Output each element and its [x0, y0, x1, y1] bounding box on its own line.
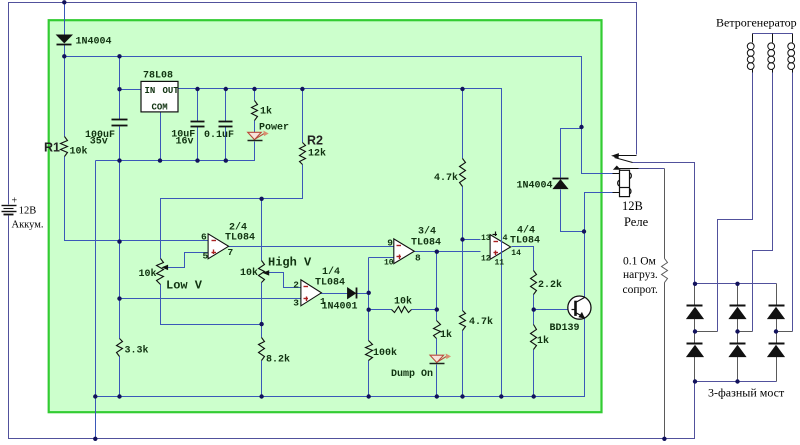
svg-text:+: +: [12, 195, 18, 206]
svg-text:16v: 16v: [176, 137, 194, 148]
svg-text:5: 5: [203, 251, 209, 262]
svg-text:COM: COM: [152, 103, 168, 113]
svg-text:TL084: TL084: [315, 278, 345, 289]
svg-text:14: 14: [511, 249, 521, 258]
svg-text:4.7k: 4.7k: [434, 172, 458, 184]
svg-text:12В: 12В: [622, 199, 643, 213]
svg-text:2.2k: 2.2k: [538, 279, 562, 291]
svg-text:1N4004: 1N4004: [517, 181, 553, 192]
svg-text:35v: 35v: [90, 137, 108, 148]
svg-text:6: 6: [201, 232, 207, 243]
svg-text:High V: High V: [268, 256, 312, 270]
svg-text:78L08: 78L08: [143, 71, 173, 82]
svg-text:10k: 10k: [394, 296, 412, 308]
svg-text:4: 4: [503, 233, 508, 243]
svg-text:100k: 100k: [373, 347, 397, 359]
svg-text:10k: 10k: [139, 268, 157, 280]
svg-text:11: 11: [495, 259, 505, 268]
svg-text:Power: Power: [259, 123, 289, 134]
svg-text:3-фазный мост: 3-фазный мост: [708, 386, 785, 400]
svg-text:8.2k: 8.2k: [266, 354, 290, 366]
svg-text:Ветрогенератор: Ветрогенератор: [716, 16, 797, 30]
svg-text:3: 3: [293, 298, 299, 309]
svg-text:3/4: 3/4: [418, 226, 436, 238]
svg-text:Реле: Реле: [624, 215, 649, 229]
svg-text:12: 12: [481, 255, 491, 264]
svg-text:0.1 Ом: 0.1 Ом: [623, 256, 657, 268]
svg-text:1k: 1k: [260, 105, 272, 117]
svg-text:Low V: Low V: [166, 279, 203, 293]
svg-text:7: 7: [228, 247, 234, 258]
svg-text:OUT: OUT: [163, 86, 180, 96]
svg-text:12k: 12k: [308, 148, 326, 160]
svg-text:12В: 12В: [19, 206, 37, 217]
svg-text:R1: R1: [44, 141, 60, 155]
svg-text:1k: 1k: [440, 329, 452, 341]
svg-text:Аккум.: Аккум.: [12, 219, 44, 230]
svg-text:9: 9: [387, 237, 393, 248]
svg-text:10k: 10k: [70, 146, 88, 158]
svg-text:TL084: TL084: [225, 233, 255, 244]
svg-text:4.7k: 4.7k: [469, 316, 493, 328]
svg-text:2: 2: [293, 280, 299, 291]
svg-text:IN: IN: [145, 86, 156, 96]
svg-text:1N4001: 1N4001: [322, 302, 358, 313]
svg-text:13: 13: [481, 234, 491, 243]
svg-text:R2: R2: [307, 134, 323, 148]
svg-text:TL084: TL084: [411, 238, 441, 249]
svg-text:BD139: BD139: [550, 323, 580, 334]
svg-text:10: 10: [384, 259, 394, 268]
svg-text:сопрот.: сопрот.: [623, 284, 659, 296]
svg-text:3.3k: 3.3k: [125, 345, 149, 357]
svg-text:8: 8: [415, 253, 421, 264]
svg-text:нагруз.: нагруз.: [623, 269, 658, 281]
svg-text:1k: 1k: [537, 335, 549, 347]
svg-text:0.1uF: 0.1uF: [204, 130, 234, 141]
svg-text:1N4004: 1N4004: [76, 37, 112, 48]
svg-text:TL084: TL084: [510, 236, 540, 247]
svg-text:1/4: 1/4: [322, 266, 340, 278]
svg-text:Dump On: Dump On: [391, 369, 433, 380]
svg-text:10k: 10k: [240, 267, 258, 279]
